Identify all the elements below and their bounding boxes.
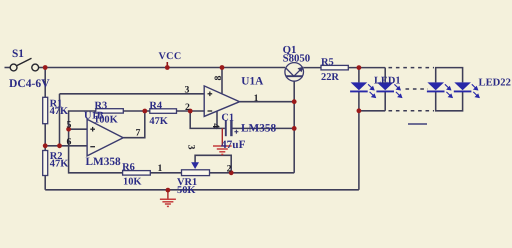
svg-text:LED1: LED1 — [374, 76, 401, 87]
wire LED column 2 — [384, 68, 386, 83]
resistor R6 — [123, 171, 151, 176]
svg-text:10K: 10K — [123, 177, 141, 188]
wire LED group2 top rail — [436, 68, 463, 83]
wire R4 right to pin2 — [177, 110, 205, 112]
wire pin6 node to U1B — [45, 145, 87, 147]
svg-text:47K: 47K — [149, 116, 167, 127]
svg-text:47uF: 47uF — [221, 139, 246, 151]
wire R6 right to VR1 — [150, 172, 181, 174]
svg-text:S8050: S8050 — [283, 52, 311, 64]
wire pin5 stub — [69, 128, 88, 130]
node pin8-VCC — [220, 65, 225, 70]
wire S1 left stub — [5, 67, 11, 69]
svg-text:22R: 22R — [321, 72, 339, 83]
resistor R2 — [43, 151, 48, 176]
node LED top — [357, 65, 362, 70]
wire R2 bottom to bottom rail — [44, 176, 46, 190]
node LED bottom — [357, 108, 362, 113]
svg-text:C1: C1 — [221, 112, 234, 123]
wire bottom ground rail — [45, 189, 359, 191]
LED D1a — [350, 82, 368, 91]
svg-text:VCC: VCC — [159, 51, 182, 62]
svg-text:6: 6 — [67, 137, 72, 148]
resistor R5 — [321, 65, 348, 70]
svg-text:47K: 47K — [50, 106, 68, 117]
node pin6 tap — [57, 143, 62, 148]
wire VR1 wiper bracket — [195, 155, 231, 173]
wire LED group2 bottom rail — [436, 91, 463, 110]
wire dashed top link — [389, 67, 435, 69]
svg-text:S1: S1 — [12, 48, 24, 60]
LED D2a light arrows — [445, 84, 452, 97]
wire pin2 drop to C1 node — [190, 111, 217, 128]
wire VCC rail — [45, 67, 285, 69]
svg-text:3: 3 — [186, 145, 197, 150]
svg-text:R4: R4 — [149, 101, 162, 112]
switch S1 — [10, 58, 38, 71]
wire Q1 emitter to R5 — [304, 67, 322, 69]
potentiometer VR1 body — [182, 170, 210, 176]
resistor R4 — [150, 109, 177, 114]
node VR1 pin2 — [229, 170, 234, 175]
node pin2-wiper — [188, 109, 193, 114]
svg-text:R6: R6 — [122, 162, 135, 173]
svg-text:8: 8 — [213, 76, 224, 81]
node C1-feedback — [292, 126, 297, 131]
svg-text:3: 3 — [185, 85, 190, 96]
VCC power stub — [166, 62, 168, 68]
wire dashed middle link — [406, 88, 429, 90]
svg-text:LM358: LM358 — [241, 123, 276, 135]
svg-text:1: 1 — [158, 163, 163, 174]
continuation mark — [408, 123, 427, 125]
svg-text:U1A: U1A — [241, 76, 264, 88]
ground main — [160, 190, 176, 206]
svg-text:U1B: U1B — [84, 111, 104, 122]
wire VCC junction down to R1 — [44, 68, 46, 98]
node pin1-base — [292, 99, 297, 104]
wire R3 left drop to pin5 — [69, 111, 96, 129]
svg-text:DC4-6V: DC4-6V — [9, 77, 50, 90]
wire dashed bottom link — [389, 110, 435, 112]
wire LED return vertical — [358, 111, 360, 190]
wire VR1 pin2 to feedback vertical — [210, 172, 295, 174]
LED D1b light arrows — [394, 84, 401, 97]
node S1-VCC — [43, 65, 48, 70]
LED D2a — [427, 82, 445, 91]
node ground tap — [166, 188, 171, 193]
svg-text:2: 2 — [185, 102, 190, 113]
wire pin8 stub — [221, 68, 223, 94]
svg-text:5: 5 — [67, 120, 72, 131]
LED D2b light arrows — [472, 84, 479, 97]
ground under C1 — [213, 128, 232, 154]
capacitor C1 plus sign — [234, 130, 238, 134]
node pin5 tap — [66, 127, 71, 132]
LED D1a light arrows — [368, 84, 375, 97]
wire R3 right to node — [123, 110, 150, 112]
wire S1 to junction — [39, 67, 45, 69]
wire C1 plus to node — [233, 127, 295, 129]
wire LED column 1 top — [358, 68, 360, 83]
potentiometer VR1 wiper arrow — [191, 162, 199, 169]
wire pin1 of U1A — [240, 101, 295, 103]
resistor R3 — [96, 109, 124, 113]
wire Q1 base drop — [293, 81, 295, 102]
LED D2b — [454, 82, 472, 91]
wire pin4 stub — [217, 111, 225, 128]
op-amp U1A — [204, 86, 239, 117]
node R3-R4-pin7 — [142, 109, 147, 114]
node divider mid — [43, 143, 48, 148]
node VCC port — [165, 65, 170, 70]
wire R5 to LED bank — [348, 67, 385, 69]
svg-text:2: 2 — [227, 164, 232, 175]
wire vertical pin3 feed — [59, 94, 61, 146]
transistor Q1 emitter arrow — [298, 67, 304, 73]
svg-text:50K: 50K — [177, 185, 195, 196]
svg-text:1: 1 — [254, 93, 259, 104]
svg-text:47K: 47K — [50, 158, 68, 169]
op-amp U1B — [87, 119, 123, 156]
wire LED group1 bottom rail — [359, 110, 385, 112]
wire R1 bottom to divider node — [44, 124, 46, 151]
wire pin7 output — [123, 111, 145, 138]
svg-text:4: 4 — [210, 123, 221, 128]
capacitor C1 — [226, 120, 232, 136]
wire pin5 down to R6 — [69, 129, 123, 173]
LED D1b — [376, 82, 394, 91]
transistor Q1 — [285, 63, 304, 82]
svg-text:R5: R5 — [321, 57, 334, 68]
wire LED column 1 bottom — [358, 91, 360, 110]
svg-text:7: 7 — [136, 128, 141, 139]
svg-text:LM358: LM358 — [86, 156, 121, 168]
wire pin3 of U1A — [60, 93, 205, 95]
svg-text:LED22: LED22 — [479, 78, 511, 89]
resistor R1 — [43, 97, 48, 123]
wire feedback vertical to pin1 node — [293, 102, 295, 173]
